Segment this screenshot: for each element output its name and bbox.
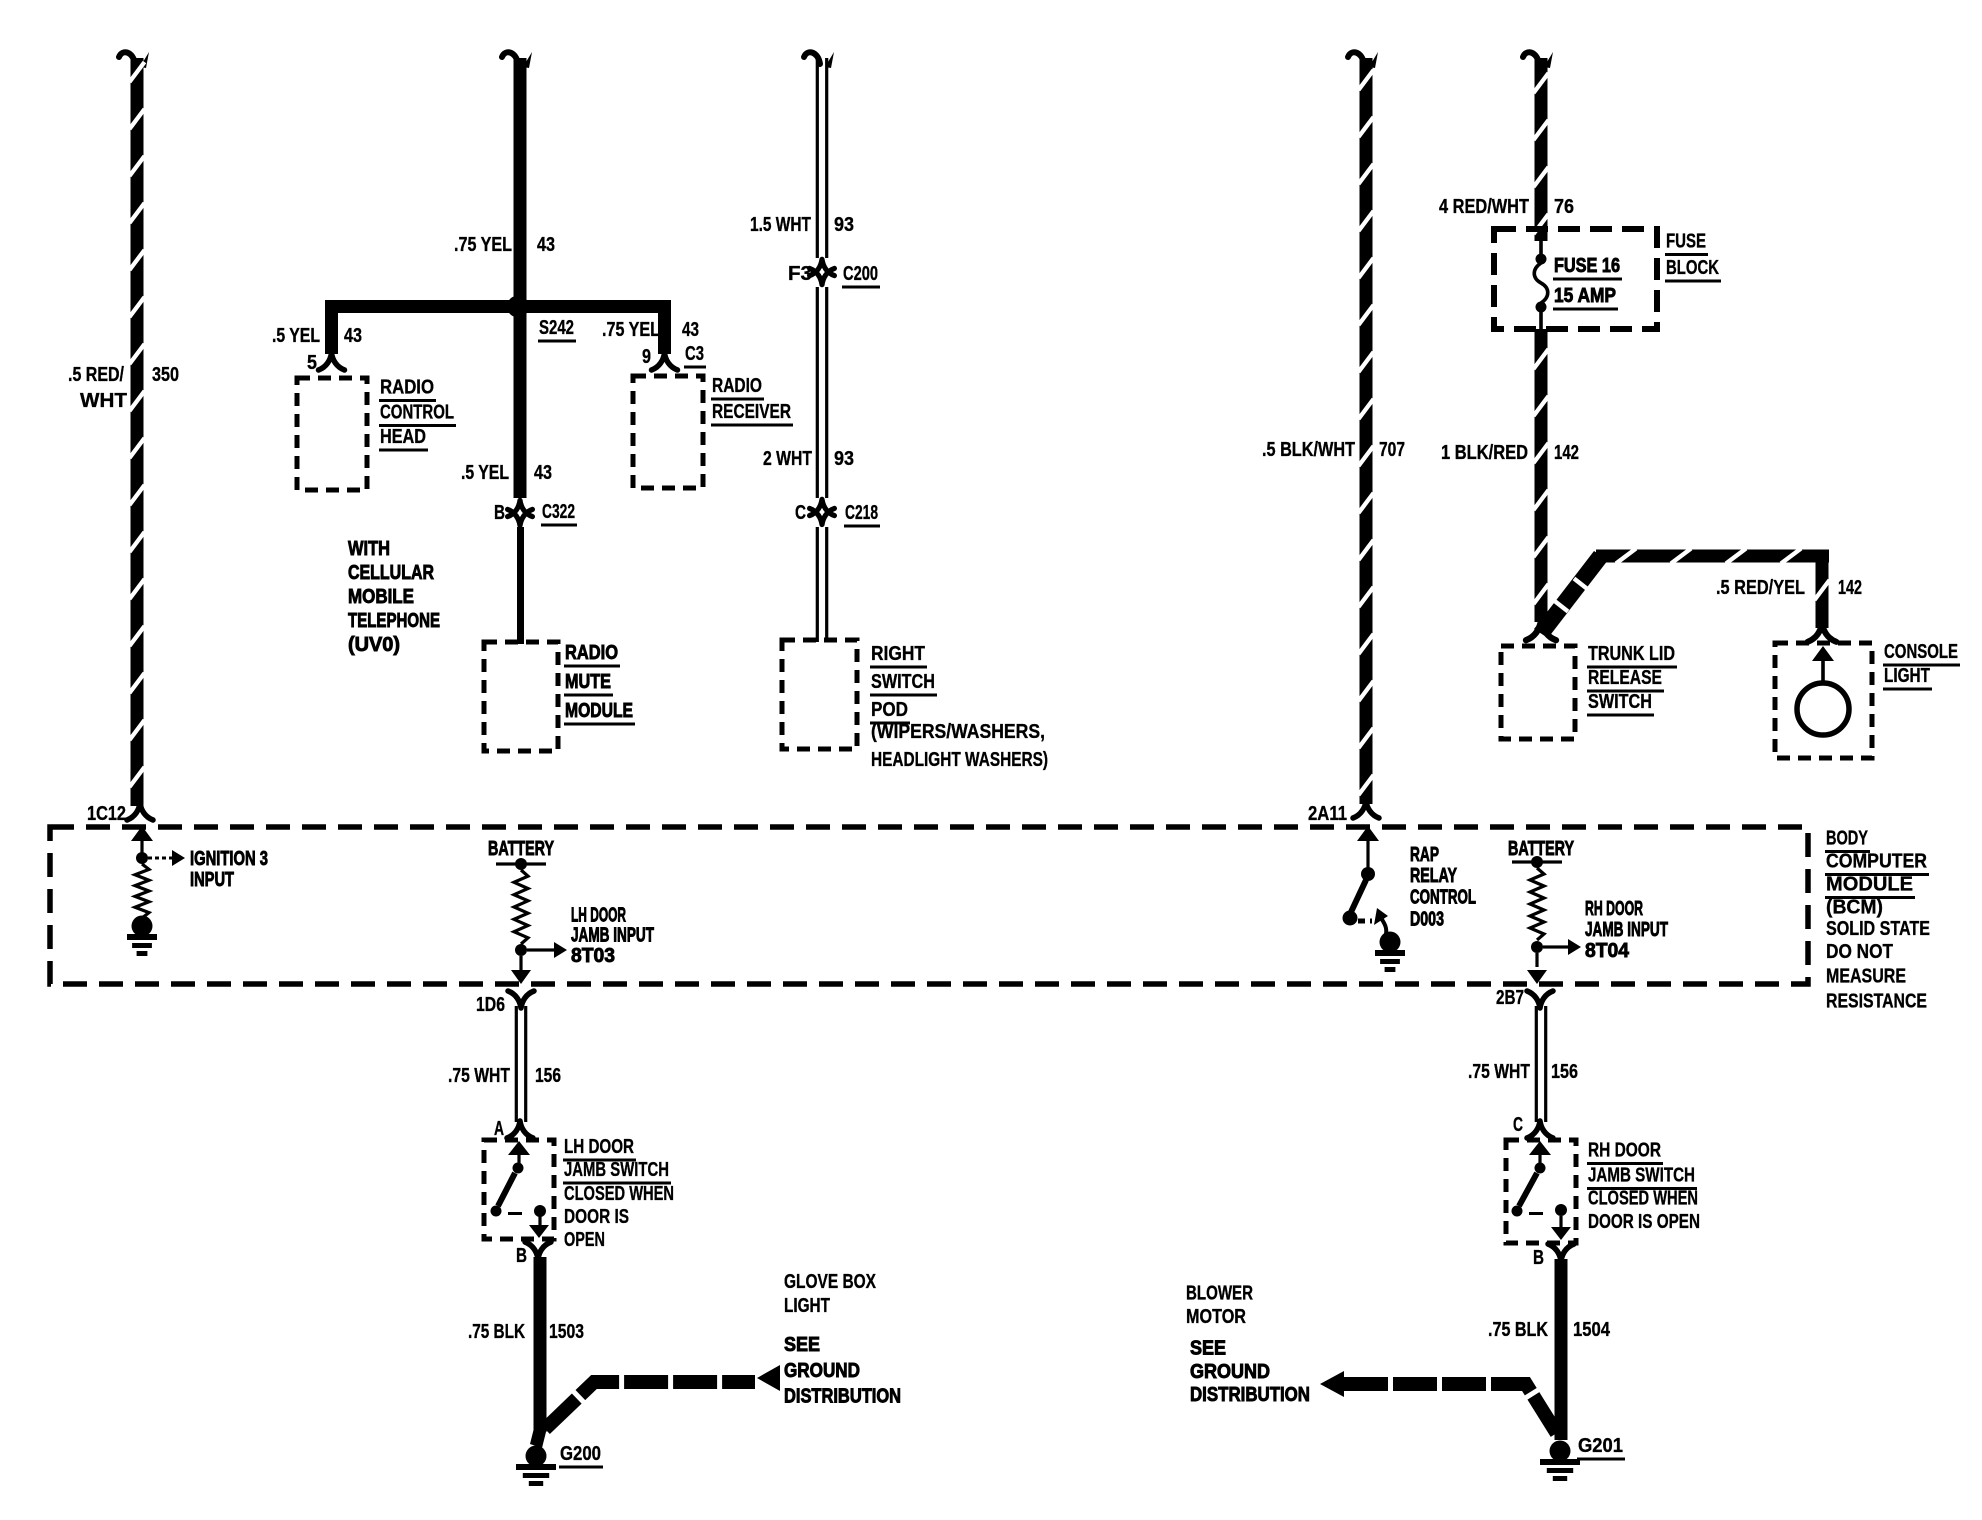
RH door jamb switch box xyxy=(1506,1140,1576,1243)
svg-text:MOTOR: MOTOR xyxy=(1186,1306,1246,1328)
svg-text:JAMB SWITCH: JAMB SWITCH xyxy=(564,1159,669,1181)
svg-text:156: 156 xyxy=(1551,1061,1578,1083)
svg-text:.75 BLK: .75 BLK xyxy=(468,1321,525,1343)
wire .75 BLK 1503 to ground G200 xyxy=(534,1257,547,1432)
svg-text:B: B xyxy=(516,1245,527,1267)
svg-text:MOBILE: MOBILE xyxy=(348,586,414,608)
dashed wire to ground distribution (left) xyxy=(545,1382,755,1429)
svg-text:RELEASE: RELEASE xyxy=(1588,667,1662,689)
svg-text:RELAY: RELAY xyxy=(1410,865,1457,887)
svg-text:.75 YEL: .75 YEL xyxy=(454,234,512,256)
console light box xyxy=(1775,643,1872,758)
svg-text:CLOSED WHEN: CLOSED WHEN xyxy=(1588,1188,1698,1210)
svg-text:RESISTANCE: RESISTANCE xyxy=(1826,991,1927,1013)
body computer module BCM dashed box xyxy=(50,827,1808,984)
svg-text:D003: D003 xyxy=(1410,909,1444,931)
svg-text:CONTROL: CONTROL xyxy=(1410,887,1476,909)
svg-text:HEAD: HEAD xyxy=(380,426,426,448)
svg-text:MEASURE: MEASURE xyxy=(1826,966,1906,988)
svg-text:C322: C322 xyxy=(542,501,575,523)
LH door jamb switch box xyxy=(484,1140,554,1239)
svg-text:.75 WHT: .75 WHT xyxy=(448,1065,510,1087)
svg-text:1504: 1504 xyxy=(1573,1319,1611,1341)
svg-text:(BCM): (BCM) xyxy=(1826,897,1883,919)
svg-text:BLOWER: BLOWER xyxy=(1186,1283,1253,1305)
svg-text:(UV0): (UV0) xyxy=(348,634,400,656)
svg-text:JAMB INPUT: JAMB INPUT xyxy=(571,925,654,947)
svg-text:CLOSED WHEN: CLOSED WHEN xyxy=(564,1183,674,1205)
svg-text:93: 93 xyxy=(834,214,854,236)
svg-text:RADIO: RADIO xyxy=(380,377,434,399)
svg-text:RADIO: RADIO xyxy=(565,642,618,664)
svg-text:156: 156 xyxy=(535,1065,561,1087)
connector at console light xyxy=(1808,623,1837,642)
ground G201 xyxy=(1550,1441,1571,1462)
wire into right switch pod xyxy=(816,527,819,642)
svg-text:MODULE: MODULE xyxy=(1826,874,1913,896)
radio receiver box xyxy=(633,376,703,488)
svg-text:CONTROL: CONTROL xyxy=(380,402,454,424)
svg-text:B: B xyxy=(1533,1247,1544,1269)
wire to radio mute module xyxy=(517,527,524,644)
svg-text:43: 43 xyxy=(537,234,555,256)
svg-text:GLOVE BOX: GLOVE BOX xyxy=(784,1271,877,1293)
BCM internal ground right (RAP) xyxy=(1380,932,1401,953)
svg-text:1 BLK/RED: 1 BLK/RED xyxy=(1441,442,1528,464)
svg-text:2B7: 2B7 xyxy=(1496,987,1524,1009)
svg-text:G200: G200 xyxy=(560,1443,601,1465)
svg-text:CELLULAR: CELLULAR xyxy=(348,562,434,584)
svg-text:.75 YEL: .75 YEL xyxy=(602,319,660,341)
svg-text:43: 43 xyxy=(534,462,552,484)
wire W1 .5 RED/WHT circuit 350 (hatched vertical, off-page top, to BCM pin 1C12) xyxy=(119,52,135,64)
BCM internal ground left xyxy=(132,916,153,937)
wire .75 WHT 156 to LH door jamb switch xyxy=(515,1006,518,1122)
svg-text:350: 350 xyxy=(152,364,179,386)
svg-text:POD: POD xyxy=(871,699,908,721)
svg-text:JAMB SWITCH: JAMB SWITCH xyxy=(1588,1165,1695,1187)
svg-text:142: 142 xyxy=(1838,577,1862,599)
svg-text:C218: C218 xyxy=(845,502,878,524)
svg-text:142: 142 xyxy=(1554,442,1579,464)
splice S242 junction dot xyxy=(507,296,529,318)
svg-text:BATTERY: BATTERY xyxy=(1508,838,1574,860)
dashed wire to ground distribution (right) xyxy=(1344,1384,1559,1437)
svg-text:LIGHT: LIGHT xyxy=(1884,665,1930,687)
wire 2 WHT 93 between C200 and C218 xyxy=(816,287,819,498)
svg-text:SEE: SEE xyxy=(784,1334,820,1356)
BCM pin RAP relay control: arrow, switch to ground xyxy=(1357,826,1379,841)
svg-text:SEE: SEE xyxy=(1190,1338,1226,1360)
svg-text:OPEN: OPEN xyxy=(564,1229,605,1251)
svg-text:707: 707 xyxy=(1379,439,1405,461)
svg-text:LH DOOR: LH DOOR xyxy=(571,905,626,927)
console light lamp symbol xyxy=(1797,683,1849,735)
svg-text:1503: 1503 xyxy=(549,1321,584,1343)
svg-text:8T03: 8T03 xyxy=(571,945,615,967)
svg-text:RECEIVER: RECEIVER xyxy=(712,401,791,423)
svg-text:93: 93 xyxy=(834,448,854,470)
trunk lid release switch box xyxy=(1501,646,1575,739)
ground G200 xyxy=(526,1446,547,1467)
wire 1 BLK/RED 142 from fuse block to trunk lid release switch xyxy=(1535,329,1548,622)
svg-text:HEADLIGHT WASHERS): HEADLIGHT WASHERS) xyxy=(871,749,1048,771)
svg-text:4 RED/WHT: 4 RED/WHT xyxy=(1439,196,1529,218)
svg-text:TRUNK LID: TRUNK LID xyxy=(1588,643,1675,665)
svg-text:A: A xyxy=(494,1118,504,1140)
svg-text:G201: G201 xyxy=(1578,1435,1623,1457)
svg-text:JAMB INPUT: JAMB INPUT xyxy=(1585,919,1668,941)
wire .75 WHT 156 to RH door jamb switch xyxy=(1535,1006,1538,1122)
svg-text:BATTERY: BATTERY xyxy=(488,838,554,860)
svg-text:C: C xyxy=(795,502,806,524)
svg-text:DOOR IS: DOOR IS xyxy=(564,1206,629,1228)
wire right branch .75 YEL 43 to radio receiver pin 9 xyxy=(658,306,671,354)
svg-text:.5 BLK/WHT: .5 BLK/WHT xyxy=(1262,439,1355,461)
svg-text:15 AMP: 15 AMP xyxy=(1554,285,1616,307)
wire W2 .75 YEL circuit 43 (solid vertical, off-page top, to splice S242) xyxy=(502,52,518,64)
BCM pin ignition 3 input: arrow, dot, resistor, ground xyxy=(131,826,153,841)
svg-text:LH DOOR: LH DOOR xyxy=(564,1136,634,1158)
svg-text:.75 BLK: .75 BLK xyxy=(1488,1319,1548,1341)
wire W3 1.5 WHT circuit 93 (double-line vertical, off-page top) xyxy=(804,52,820,64)
svg-text:SWITCH: SWITCH xyxy=(1588,691,1652,713)
svg-text:.5 RED/YEL: .5 RED/YEL xyxy=(1716,577,1805,599)
svg-text:GROUND: GROUND xyxy=(1190,1361,1270,1383)
svg-text:DISTRIBUTION: DISTRIBUTION xyxy=(784,1386,901,1408)
svg-text:43: 43 xyxy=(682,319,699,341)
wire .75 BLK 1504 to ground G201 xyxy=(1555,1259,1568,1440)
arrow to ground distribution (left) xyxy=(757,1365,780,1391)
svg-text:FUSE: FUSE xyxy=(1666,231,1706,253)
svg-text:FUSE 16: FUSE 16 xyxy=(1554,255,1620,277)
svg-text:DOOR IS OPEN: DOOR IS OPEN xyxy=(1588,1211,1700,1233)
RH door jamb switch internals xyxy=(1529,1141,1551,1155)
svg-text:.5 YEL: .5 YEL xyxy=(272,325,320,347)
radio control head box xyxy=(297,378,367,490)
svg-text:SWITCH: SWITCH xyxy=(871,671,935,693)
connector at trunk lid release switch xyxy=(1526,621,1556,641)
svg-text:WHT: WHT xyxy=(80,390,127,412)
wire W4 .5 BLK/WHT circuit 707 (hatched vertical, off-page top, to BCM pin 2A11) xyxy=(1348,52,1364,64)
wire left branch .5 YEL 43 to radio control head pin 5 xyxy=(325,306,338,354)
svg-text:2A11: 2A11 xyxy=(1308,803,1347,825)
svg-text:9: 9 xyxy=(642,346,651,368)
svg-text:IGNITION 3: IGNITION 3 xyxy=(190,848,268,870)
svg-text:COMPUTER: COMPUTER xyxy=(1826,851,1927,873)
svg-text:B: B xyxy=(494,502,505,524)
svg-text:SOLID STATE: SOLID STATE xyxy=(1826,918,1930,940)
svg-text:MUTE: MUTE xyxy=(565,671,611,693)
fuse block dashed box xyxy=(1494,229,1657,329)
svg-text:2 WHT: 2 WHT xyxy=(763,448,812,470)
svg-text:DO NOT: DO NOT xyxy=(1826,941,1893,963)
svg-text:(WIPERS/WASHERS,: (WIPERS/WASHERS, xyxy=(871,721,1045,743)
svg-text:1.5 WHT: 1.5 WHT xyxy=(750,214,811,236)
svg-text:BODY: BODY xyxy=(1826,828,1868,850)
svg-text:8T04: 8T04 xyxy=(1585,940,1630,962)
wire S242 horizontal bus xyxy=(325,300,671,313)
svg-text:5: 5 xyxy=(307,352,317,374)
fuse 16 15 AMP symbol xyxy=(1539,229,1543,255)
svg-text:.75 WHT: .75 WHT xyxy=(1468,1061,1530,1083)
svg-text:RIGHT: RIGHT xyxy=(871,643,925,665)
wire branch .5 RED/YEL 142 to console light (hatched diagonal+horizontal+vertical) xyxy=(1534,551,1608,638)
svg-text:INPUT: INPUT xyxy=(190,869,234,891)
wire W2 lower .5 YEL 43 from S242 to connector C322 xyxy=(514,313,527,498)
svg-text:1D6: 1D6 xyxy=(476,994,505,1016)
svg-text:LIGHT: LIGHT xyxy=(784,1295,830,1317)
svg-text:TELEPHONE: TELEPHONE xyxy=(348,610,440,632)
svg-text:C: C xyxy=(1513,1114,1523,1136)
svg-text:C3: C3 xyxy=(685,343,704,365)
svg-text:RADIO: RADIO xyxy=(712,375,762,397)
svg-text:MODULE: MODULE xyxy=(565,700,633,722)
radio mute module box xyxy=(484,642,558,751)
svg-text:.5 RED/: .5 RED/ xyxy=(68,364,124,386)
svg-text:43: 43 xyxy=(344,325,362,347)
svg-text:GROUND: GROUND xyxy=(784,1360,860,1382)
svg-text:RAP: RAP xyxy=(1410,844,1439,866)
svg-text:C200: C200 xyxy=(843,263,878,285)
svg-text:CONSOLE: CONSOLE xyxy=(1884,641,1958,663)
svg-text:76: 76 xyxy=(1554,196,1574,218)
svg-text:BLOCK: BLOCK xyxy=(1666,257,1719,279)
arrow to ground distribution (right) xyxy=(1320,1371,1344,1397)
svg-text:1C12: 1C12 xyxy=(87,803,126,825)
svg-text:RH DOOR: RH DOOR xyxy=(1588,1140,1661,1162)
svg-text:RH DOOR: RH DOOR xyxy=(1585,898,1643,920)
svg-text:WITH: WITH xyxy=(348,538,390,560)
LH door jamb switch internals xyxy=(508,1141,530,1155)
svg-text:S242: S242 xyxy=(539,317,574,339)
svg-text:.5 YEL: .5 YEL xyxy=(461,462,509,484)
wire W5 4 RED/WHT circuit 76 (hatched vertical, off-page top, to fuse block) xyxy=(1523,52,1539,64)
svg-text:DISTRIBUTION: DISTRIBUTION xyxy=(1190,1384,1310,1406)
right switch pod box xyxy=(782,640,857,749)
